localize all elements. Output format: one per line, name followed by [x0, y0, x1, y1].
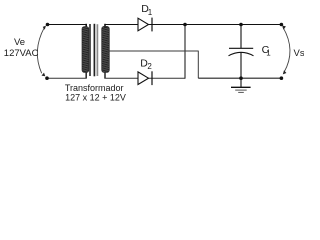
- svg-text:Vs: Vs: [294, 48, 305, 59]
- wire: bottom left rail from input node to primary bottom lead: [47, 77, 87, 79]
- capacitor C1 bottom lead: [240, 52, 242, 78]
- Ve arrowhead top: [43, 26, 46, 30]
- wire: D1 cathode to output top rail: [148, 24, 281, 26]
- svg-text:127 x 12 + 12V: 127 x 12 + 12V: [65, 92, 126, 102]
- node: input top: [46, 23, 50, 27]
- capacitor C1 top plate: [229, 47, 253, 49]
- wire: secondary bottom to D2 anode: [104, 77, 138, 79]
- ground lead: [240, 78, 242, 87]
- transformer secondary side line: [96, 24, 98, 76]
- diode D1: [138, 18, 149, 31]
- node: capacitor top junction: [239, 23, 243, 27]
- diode D2 cathode bar: [151, 71, 153, 85]
- Vs measurement arc: [283, 27, 290, 72]
- wire: secondary bottom lead: [104, 72, 106, 79]
- node: output top: [280, 23, 284, 27]
- wire: top rail from input node to primary top lead: [48, 24, 87, 26]
- capacitor C1 top lead: [240, 25, 242, 49]
- diode D2: [138, 72, 149, 85]
- ground bar 3: [238, 91, 244, 93]
- node: output bottom: [280, 76, 284, 80]
- transformer T secondary winding: [102, 26, 110, 72]
- transformer core line left: [89, 24, 91, 76]
- svg-text:1: 1: [266, 49, 271, 58]
- wire: secondary top to D1 anode: [105, 24, 139, 26]
- ground bar 2: [235, 89, 247, 91]
- node: capacitor bottom junction: [239, 76, 243, 80]
- svg-text:Transformador: Transformador: [65, 83, 124, 93]
- capacitor C1 bottom plate (curved): [229, 52, 254, 56]
- wire: primary top lead: [85, 24, 87, 29]
- transformer T primary winding: [82, 27, 89, 73]
- wire: secondary top lead: [104, 24, 106, 28]
- wire: bottom output rail: [198, 77, 281, 79]
- wire: center tap horizontal: [109, 50, 199, 52]
- Ve arrowhead bottom: [42, 73, 46, 77]
- Vs arrowhead top: [282, 26, 286, 30]
- wire: D2 cathode to riser: [148, 77, 185, 79]
- svg-text:2: 2: [147, 62, 152, 71]
- Ve measurement arc: [37, 28, 44, 74]
- transformer core line right: [93, 24, 95, 77]
- svg-text:1: 1: [148, 8, 153, 17]
- wire: primary bottom lead: [85, 72, 87, 79]
- node: D2 riser junction: [183, 23, 187, 27]
- svg-text:Ve: Ve: [14, 37, 25, 48]
- wire: center tap drop to bottom rail: [197, 51, 199, 79]
- svg-text:127VAC: 127VAC: [4, 48, 39, 59]
- node: input bottom: [45, 76, 49, 80]
- wire: riser from D2 output up to top rail: [184, 25, 186, 79]
- diode D1 cathode bar: [151, 18, 153, 32]
- ground bar 1: [231, 86, 251, 88]
- Vs arrowhead bottom: [283, 70, 287, 74]
